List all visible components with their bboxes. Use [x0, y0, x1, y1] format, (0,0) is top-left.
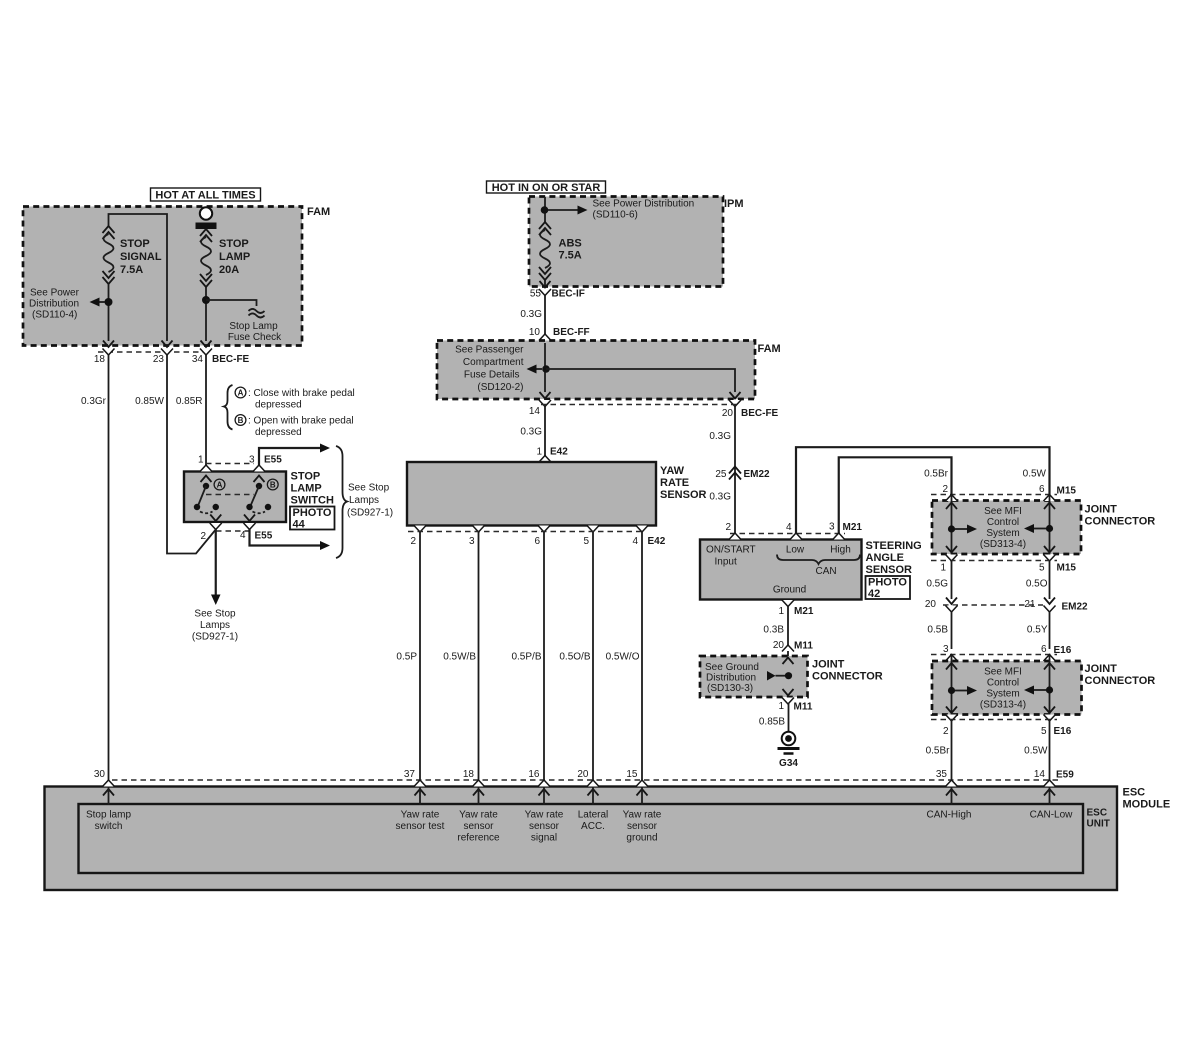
- JOINT CONNECTOR MFI box 2 (dashed): [932, 661, 1082, 715]
- ESC pin 14: [1044, 780, 1056, 787]
- pin 20: [730, 392, 741, 399]
- IPM box (dashed): [529, 197, 723, 287]
- chevron above bottom border: [783, 689, 794, 696]
- ESC pin 15: [636, 780, 648, 787]
- pin2 chevron: [210, 515, 221, 522]
- arrow to See Power Distribution: [548, 209, 579, 211]
- svg-text:Yaw rate: Yaw rate: [623, 810, 662, 821]
- forks below box: [946, 715, 958, 722]
- svg-text:1: 1: [940, 563, 946, 574]
- wire 0.3B: [787, 606, 789, 646]
- svg-text:Stop Lamp: Stop Lamp: [229, 321, 278, 332]
- svg-text:PHOTO: PHOTO: [293, 507, 332, 519]
- svg-text:Control: Control: [987, 517, 1019, 528]
- svg-text:IPM: IPM: [724, 198, 744, 210]
- chevrons in box bottom: [946, 546, 957, 553]
- svg-text:Ground: Ground: [773, 585, 806, 596]
- chevrons in box bottom: [946, 707, 957, 714]
- svg-text:STOP: STOP: [120, 238, 150, 250]
- steering pin2 fork: [729, 533, 741, 540]
- arrow and dot: [767, 671, 776, 681]
- svg-text:0.5G: 0.5G: [926, 579, 948, 590]
- svg-text:0.5B: 0.5B: [927, 625, 948, 636]
- svg-text:(SD313-4): (SD313-4): [980, 700, 1026, 711]
- dashed throw arc B: [253, 512, 266, 514]
- connector line BEC-FE dashed: [541, 404, 739, 406]
- svg-text:34: 34: [192, 354, 204, 365]
- pin 55 BEC-IF: [540, 281, 551, 288]
- svg-text:SENSOR: SENSOR: [660, 489, 707, 501]
- yaw pin 2: [414, 526, 426, 533]
- svg-text:SENSOR: SENSOR: [866, 564, 913, 576]
- svg-text:0.5O: 0.5O: [1026, 579, 1048, 590]
- svg-text:(SD927-1): (SD927-1): [347, 508, 393, 519]
- wire 0.5W/O: [641, 532, 643, 782]
- wire 0.3G BEC-IF to BEC-FF: [544, 295, 546, 335]
- circled A: [214, 479, 225, 490]
- svg-text:See MFI: See MFI: [984, 667, 1022, 678]
- svg-text:See MFI: See MFI: [984, 506, 1022, 517]
- FAM passenger compartment box (dashed): [437, 341, 755, 400]
- blade A: [198, 486, 207, 507]
- legend circled A: [235, 387, 246, 398]
- svg-text:15: 15: [626, 769, 638, 780]
- wire pin4 to E55 arrow: [250, 529, 322, 546]
- ESC UNIT inner box: [79, 804, 1084, 873]
- svg-text:23: 23: [153, 354, 165, 365]
- forks below box: [946, 555, 958, 562]
- ESC pin 37: [414, 780, 426, 787]
- svg-text:55: 55: [530, 289, 542, 300]
- pin4 fork: [244, 523, 256, 530]
- svg-text:5: 5: [1041, 726, 1047, 737]
- wire fuse1 to pin 18: [108, 284, 110, 341]
- svg-text:0.5W/B: 0.5W/B: [443, 652, 476, 663]
- forks under E16 line: [946, 655, 958, 662]
- contact B dot: [256, 483, 262, 489]
- svg-text:0.85R: 0.85R: [176, 396, 203, 407]
- svg-text:6: 6: [1041, 644, 1047, 655]
- svg-text:Lamps: Lamps: [200, 620, 230, 631]
- svg-text:14: 14: [1034, 769, 1046, 780]
- svg-text:0.5O/B: 0.5O/B: [559, 652, 590, 663]
- CAN brace: [777, 555, 860, 565]
- pin 10 BEC-FF: [539, 334, 551, 341]
- svg-text:CONNECTOR: CONNECTOR: [1085, 516, 1156, 528]
- pin1 M11 fork: [782, 698, 794, 705]
- wire 0.5W/B: [478, 532, 480, 782]
- svg-text:(SD927-1): (SD927-1): [192, 632, 238, 643]
- legend brace: [224, 385, 233, 430]
- svg-text:20: 20: [773, 640, 785, 651]
- dots and arrows: [948, 687, 955, 694]
- stop lamp switch box: [184, 472, 286, 523]
- svg-text:0.3G: 0.3G: [520, 309, 542, 320]
- svg-text:RATE: RATE: [660, 477, 689, 489]
- wire pin3 to E55 arrow: [259, 448, 321, 466]
- svg-text:(SD313-4): (SD313-4): [980, 539, 1026, 550]
- junction dot: [105, 298, 113, 306]
- svg-text:(SD130-3): (SD130-3): [707, 683, 753, 694]
- connector line E55 bottom dashed: [216, 530, 249, 532]
- svg-text:(SD120-2): (SD120-2): [477, 382, 523, 393]
- svg-text:2: 2: [200, 531, 206, 542]
- wires through connector: [951, 655, 953, 721]
- connector line ESC dashed: [112, 779, 1062, 781]
- svg-text:Distribution: Distribution: [706, 673, 756, 684]
- svg-text:30: 30: [94, 769, 106, 780]
- legend circled B: [235, 415, 246, 426]
- svg-text:0.85B: 0.85B: [759, 717, 785, 728]
- svg-text:M15: M15: [1057, 563, 1077, 574]
- svg-text:: Close with brake pedal: : Close with brake pedal: [248, 388, 355, 399]
- svg-text:A: A: [217, 481, 223, 490]
- contact dots bottom right: [246, 504, 252, 510]
- svg-text:EM22: EM22: [1062, 602, 1089, 613]
- svg-text:16: 16: [528, 769, 540, 780]
- svg-text:6: 6: [1039, 484, 1045, 495]
- fuse ABS 7.5A: [539, 222, 551, 280]
- arrow left: [534, 368, 542, 370]
- svg-text:0.5Y: 0.5Y: [1027, 625, 1048, 636]
- svg-text:1: 1: [198, 455, 204, 466]
- svg-text:CONNECTOR: CONNECTOR: [812, 671, 883, 683]
- svg-text:E55: E55: [255, 531, 273, 542]
- svg-text:M21: M21: [794, 606, 814, 617]
- svg-text:0.3G: 0.3G: [520, 427, 542, 438]
- svg-text:M11: M11: [794, 641, 813, 652]
- svg-text:reference: reference: [457, 833, 500, 844]
- svg-text:4: 4: [632, 536, 638, 547]
- fuse holder bar: [196, 223, 217, 230]
- wire to fuse check: [206, 300, 257, 306]
- svg-text:35: 35: [936, 769, 948, 780]
- svg-text:2: 2: [943, 726, 949, 737]
- switch contact A: chevron: [201, 476, 212, 483]
- svg-text:0.5Br: 0.5Br: [926, 746, 951, 757]
- chevrons in box top: [946, 503, 957, 510]
- label HOT AT ALL TIMES: [151, 188, 261, 202]
- ESC pin 20: [587, 780, 599, 787]
- switch contact B: chevron: [254, 476, 265, 483]
- svg-text:Fuse Details: Fuse Details: [464, 370, 520, 381]
- svg-text:44: 44: [293, 519, 306, 531]
- chevrons in box top: [946, 663, 957, 670]
- svg-text:0.3B: 0.3B: [763, 625, 784, 636]
- wire 0.85B to ground: [788, 704, 790, 732]
- svg-text:EM22: EM22: [744, 469, 771, 480]
- ESC pin 18: [473, 780, 485, 787]
- wires 0.5Br / 0.5W bottom: [951, 721, 953, 782]
- svg-text:PHOTO: PHOTO: [868, 577, 907, 589]
- svg-text:STOP: STOP: [291, 471, 321, 483]
- pin 20 M11 fork: [782, 645, 794, 652]
- svg-text:G34: G34: [779, 758, 798, 769]
- svg-text:STOP: STOP: [219, 238, 249, 250]
- svg-text:18: 18: [94, 354, 106, 365]
- svg-text:signal: signal: [531, 833, 557, 844]
- svg-text:sensor test: sensor test: [396, 821, 445, 832]
- pin 34: [201, 341, 212, 348]
- blade B: [250, 486, 259, 507]
- svg-text:See Stop: See Stop: [194, 609, 236, 620]
- svg-text:0.5Br: 0.5Br: [924, 469, 949, 480]
- svg-text:JOINT: JOINT: [1085, 663, 1118, 675]
- svg-text:JOINT: JOINT: [812, 659, 845, 671]
- contact dots bottom left: [194, 504, 200, 510]
- svg-text:14: 14: [529, 406, 541, 417]
- svg-text:0.85W: 0.85W: [135, 396, 164, 407]
- svg-text:See Stop: See Stop: [348, 483, 390, 494]
- svg-text:sensor: sensor: [529, 821, 560, 832]
- wire loop fuse1 to pin 23: [109, 214, 168, 341]
- svg-text:ground: ground: [626, 833, 657, 844]
- svg-text:ACC.: ACC.: [581, 821, 605, 832]
- svg-text:HOT IN ON OR STAR: HOT IN ON OR STAR: [492, 182, 601, 194]
- wire fuse2 to pin 34: [205, 287, 207, 341]
- svg-text:0.5P/B: 0.5P/B: [511, 652, 541, 663]
- fuse STOP LAMP 20A: [200, 229, 212, 287]
- svg-text:YAW: YAW: [660, 465, 685, 477]
- svg-text:3: 3: [249, 455, 255, 466]
- svg-text:20: 20: [722, 408, 734, 419]
- svg-text:LAMP: LAMP: [291, 483, 322, 495]
- junction dot fuse check: [202, 296, 210, 304]
- chevron below top border: [783, 658, 794, 665]
- svg-text:STEERING: STEERING: [866, 540, 922, 552]
- svg-text:BEC-IF: BEC-IF: [552, 289, 585, 300]
- svg-text:ESC: ESC: [1087, 808, 1108, 819]
- yaw pin 5: [587, 526, 599, 533]
- wire 0.85W pin23 down: [167, 355, 216, 554]
- svg-text:depressed: depressed: [255, 400, 302, 411]
- svg-text:3: 3: [469, 536, 475, 547]
- contact A dot: [203, 483, 209, 489]
- svg-text:0.3G: 0.3G: [709, 431, 731, 442]
- svg-text:0.5W: 0.5W: [1024, 746, 1048, 757]
- connector line M21 dashed: [730, 533, 845, 535]
- svg-text:BEC-FE: BEC-FE: [741, 408, 779, 419]
- svg-text:1: 1: [536, 447, 542, 458]
- pin2 fork: [210, 523, 222, 530]
- fuse check squiggle: [249, 309, 265, 318]
- junction dot: [541, 206, 549, 214]
- svg-text:4: 4: [240, 530, 246, 541]
- svg-text:E42: E42: [648, 536, 666, 547]
- connector line E16 bottom dashed: [931, 719, 1057, 721]
- steering pin1 fork: [782, 600, 794, 607]
- svg-text:CAN-High: CAN-High: [926, 810, 971, 821]
- svg-text:ESC: ESC: [1123, 787, 1146, 799]
- YAW RATE SENSOR box: [407, 462, 656, 526]
- svg-text:7.5A: 7.5A: [559, 250, 582, 262]
- svg-text:E55: E55: [264, 455, 282, 466]
- svg-text:3: 3: [829, 522, 835, 533]
- ESC MODULE outer box: [45, 787, 1118, 891]
- svg-text:20A: 20A: [219, 264, 239, 276]
- svg-text:System: System: [986, 528, 1019, 539]
- chevron/forks EM22 right: [1044, 598, 1055, 605]
- connector line E16 top dashed: [931, 654, 1057, 656]
- svg-text:Distribution: Distribution: [29, 299, 79, 310]
- svg-text:E16: E16: [1054, 726, 1072, 737]
- yaw pin 3: [473, 526, 485, 533]
- svg-text:Control: Control: [987, 678, 1019, 689]
- wire CAN high top run: steering pin3 to CAN-High: [839, 457, 952, 534]
- svg-text:42: 42: [868, 588, 880, 600]
- svg-text:2: 2: [725, 522, 731, 533]
- svg-text:20: 20: [925, 599, 937, 610]
- svg-text:SWITCH: SWITCH: [291, 495, 334, 507]
- JOINT CONNECTOR (ground) box dashed: [700, 656, 808, 697]
- wire top to ABS fuse: [544, 197, 546, 223]
- svg-text:2: 2: [410, 536, 416, 547]
- svg-text:Fuse Check: Fuse Check: [228, 332, 282, 343]
- wire 0.5P: [419, 532, 421, 782]
- svg-text:FAM: FAM: [307, 206, 330, 218]
- svg-text:FAM: FAM: [758, 343, 781, 355]
- svg-text:JOINT: JOINT: [1085, 504, 1118, 516]
- svg-text:LAMP: LAMP: [219, 251, 250, 263]
- svg-text:3: 3: [943, 644, 949, 655]
- svg-text:7.5A: 7.5A: [120, 264, 143, 276]
- connector 25 EM22 inline: [729, 467, 741, 480]
- chevron/forks EM22 left: [946, 598, 957, 605]
- svg-text:Stop lamp: Stop lamp: [86, 810, 131, 821]
- svg-text:10: 10: [529, 327, 541, 338]
- svg-text:20: 20: [577, 769, 589, 780]
- wire 0.5O/B: [592, 532, 594, 782]
- arrow to See Power Distribution: [97, 301, 105, 303]
- ESC pin 30: [103, 780, 115, 787]
- svg-text:See Passenger: See Passenger: [455, 345, 524, 356]
- svg-text:See Ground: See Ground: [705, 662, 759, 673]
- svg-text:Yaw rate: Yaw rate: [401, 810, 440, 821]
- connector line E55 top dashed: [206, 463, 254, 465]
- wire 0.3G pin14 to E42: [544, 406, 546, 456]
- svg-text:UNIT: UNIT: [1087, 819, 1110, 830]
- svg-text:System: System: [986, 689, 1019, 700]
- svg-text:Yaw rate: Yaw rate: [525, 810, 564, 821]
- wire to pin 20: [546, 369, 735, 392]
- junction dot: [542, 365, 550, 373]
- svg-text:sensor: sensor: [463, 821, 494, 832]
- svg-text:0.5P: 0.5P: [396, 652, 417, 663]
- svg-text:0.3G: 0.3G: [709, 492, 731, 503]
- battery terminal circle: [200, 207, 212, 219]
- connector line BEC-FE dashed: [98, 351, 211, 353]
- FAM fuse box (dashed): [23, 207, 302, 346]
- svg-text:ABS: ABS: [559, 238, 582, 250]
- svg-text:0.3Gr: 0.3Gr: [81, 396, 107, 407]
- svg-text:BEC-FE: BEC-FE: [212, 354, 250, 365]
- steering pin3 fork: [833, 533, 845, 540]
- svg-text:sensor: sensor: [627, 821, 658, 832]
- yaw pin 6: [538, 526, 550, 533]
- connector line E42 dashed: [408, 531, 645, 533]
- wire 0.3Gr pin18 to ESC pin30: [108, 355, 110, 782]
- pin4 chevron: [244, 515, 255, 522]
- svg-text:ANGLE: ANGLE: [866, 552, 905, 564]
- dashed throw arc A: [200, 512, 213, 514]
- label HOT IN ON OR STAR: [487, 181, 606, 194]
- svg-text:B: B: [238, 416, 244, 425]
- wire pin2 down arrow See Stop Lamps: [215, 530, 217, 597]
- wire 0.5P/B: [543, 532, 545, 782]
- wire into joint connector: [787, 651, 789, 698]
- svg-text:25: 25: [715, 469, 727, 480]
- pin1 fork: [200, 465, 212, 472]
- svg-text:5: 5: [583, 536, 589, 547]
- wire fuse to IPM bottom: [544, 280, 546, 287]
- JOINT CONNECTOR MFI box 1 (dashed): [932, 501, 1081, 555]
- svg-text:switch: switch: [95, 821, 123, 832]
- svg-text:depressed: depressed: [255, 427, 302, 438]
- svg-text:A: A: [238, 389, 244, 398]
- svg-text:Input: Input: [715, 557, 737, 568]
- svg-text:E59: E59: [1056, 770, 1074, 781]
- pin 18: [103, 341, 114, 348]
- svg-text:M21: M21: [843, 522, 863, 533]
- svg-text:CAN-Low: CAN-Low: [1030, 810, 1074, 821]
- STEERING ANGLE SENSOR box: [700, 540, 862, 600]
- ground G34 symbol: [782, 732, 796, 746]
- wires 0.5B / 0.5Y: [951, 612, 953, 650]
- svg-text:18: 18: [463, 769, 475, 780]
- wire 0.3G pin20 to steering pin2: [734, 406, 736, 534]
- svg-text:BEC-FF: BEC-FF: [553, 327, 590, 338]
- pin 14: [540, 392, 551, 399]
- svg-text:6: 6: [534, 536, 540, 547]
- svg-text:Low: Low: [786, 545, 805, 556]
- svg-text:HOT AT ALL TIMES: HOT AT ALL TIMES: [155, 190, 255, 202]
- svg-text:(SD110-4): (SD110-4): [32, 310, 77, 321]
- pin3 fork: [253, 465, 265, 472]
- svg-text:E42: E42: [550, 447, 568, 458]
- pin 23: [162, 341, 173, 348]
- svg-text:High: High: [830, 545, 851, 556]
- svg-text:CONNECTOR: CONNECTOR: [1085, 675, 1156, 687]
- steering pin4 fork: [790, 533, 802, 540]
- label PHOTO 42 box: [866, 576, 911, 599]
- svg-text:Yaw rate: Yaw rate: [459, 810, 498, 821]
- svg-text:SIGNAL: SIGNAL: [120, 251, 162, 263]
- wire 0.85R pin34 to switch pin1: [205, 355, 207, 467]
- svg-text:1: 1: [778, 701, 784, 712]
- svg-text:1: 1: [778, 606, 784, 617]
- svg-text:Lateral: Lateral: [578, 810, 609, 821]
- svg-text:0.5W: 0.5W: [1023, 469, 1047, 480]
- fuse STOP SIGNAL 7.5A: [103, 226, 115, 284]
- wires through connector: [951, 495, 953, 560]
- svg-text:2: 2: [942, 484, 948, 495]
- svg-text:5: 5: [1039, 563, 1045, 574]
- svg-text:See Power: See Power: [30, 288, 80, 299]
- svg-text:: Open with brake pedal: : Open with brake pedal: [248, 416, 354, 427]
- switch middle dashed link: [206, 494, 254, 496]
- connector line M15 bottom dashed: [931, 560, 1057, 562]
- brace See Stop Lamps right: [336, 446, 347, 558]
- svg-text:21: 21: [1024, 599, 1036, 610]
- wire through FAM box: [544, 343, 546, 392]
- svg-text:Compartment: Compartment: [463, 357, 524, 368]
- svg-text:M15: M15: [1057, 486, 1077, 497]
- svg-text:E16: E16: [1054, 645, 1072, 656]
- svg-text:See Power Distribution: See Power Distribution: [593, 199, 695, 210]
- ESC pin 35: [946, 780, 958, 787]
- svg-text:B: B: [270, 481, 276, 490]
- svg-text:4: 4: [786, 522, 792, 533]
